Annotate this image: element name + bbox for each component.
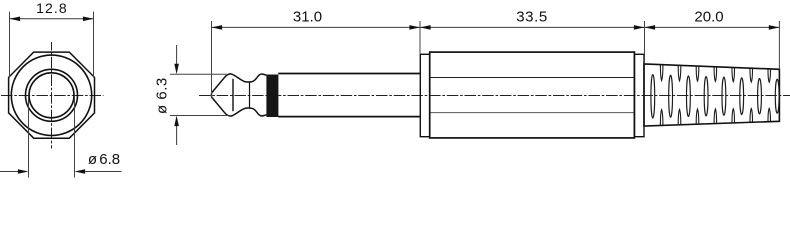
plug tip bottom profile to groove — [213, 98, 267, 116]
svg-text:ø6.8: ø6.8 — [88, 151, 120, 168]
dim ø6.8 left extension line — [28, 96, 30, 178]
front ferrule band — [420, 54, 429, 136]
strain relief boot outline — [644, 64, 779, 126]
dim 12.8 left extension line — [9, 12, 11, 78]
dim 12.8 right arrowhead — [83, 17, 94, 22]
front view vertical centerline — [51, 42, 53, 149]
svg-text:ø 6.3: ø 6.3 — [153, 77, 170, 114]
groove valley edge line — [249, 82, 251, 108]
dim ø6.3 lower extension line — [170, 115, 229, 117]
insulator ring (black band) — [266, 75, 278, 118]
side view centerline — [199, 95, 790, 97]
dim 20.0 right extension line — [778, 21, 780, 69]
arrowheads at 644.5 — [634, 25, 645, 30]
svg-text:20.0: 20.0 — [694, 8, 723, 25]
cone base edge line — [232, 79, 234, 111]
svg-text:33.5: 33.5 — [516, 8, 548, 25]
dim ø6.3 lower leader and arrowhead — [176, 126, 178, 145]
dim ø6.8 right extension line — [74, 96, 76, 178]
dim 12.8 right extension line — [93, 12, 95, 78]
arrowhead at 779.4 pointing right — [769, 25, 780, 30]
barrel octagon upper edge line — [431, 77, 634, 79]
dim 12.8 dimension line — [10, 18, 94, 20]
arrowheads at 420 — [409, 25, 420, 30]
hole circle ø6.8 — [29, 73, 74, 118]
boot top notches — [660, 65, 770, 82]
nut outer circle — [11, 55, 91, 135]
boot corrugation tall ellipses — [651, 74, 779, 118]
svg-text:12.8: 12.8 — [36, 0, 68, 16]
dim 31.0/33.5 shared extension line — [419, 21, 421, 54]
arrowhead at 211 pointing left — [212, 25, 223, 30]
barrel octagon lower edge line — [431, 112, 634, 114]
rear band — [634, 54, 644, 136]
shaft bottom edge — [278, 116, 420, 118]
front view horizontal centerline — [1, 95, 104, 97]
hole rim circle — [26, 69, 78, 121]
nut octagon outline — [9, 52, 95, 138]
dim 31.0 left extension line — [211, 21, 213, 97]
dim 12.8 left arrowhead — [10, 17, 21, 22]
dim ø6.8 left leader and arrowhead — [0, 171, 18, 173]
barrel body — [430, 52, 635, 138]
shaft top edge — [278, 73, 420, 75]
dim 33.5/20.0 shared extension line — [644, 21, 646, 64]
top dimension line — [212, 26, 780, 28]
svg-text:31.0: 31.0 — [293, 8, 322, 25]
dim ø6.8 right leader and arrowhead — [85, 171, 121, 173]
dim ø6.3 upper leader and arrowhead — [176, 45, 178, 64]
dim ø6.3 upper extension line — [170, 73, 227, 75]
plug tip cone with blunt nose, top profile to groove — [211, 74, 266, 98]
boot bottom notches — [660, 108, 770, 125]
